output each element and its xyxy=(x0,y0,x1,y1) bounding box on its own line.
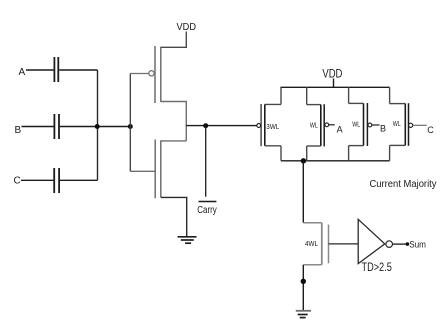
transistor T2 WL channel bar xyxy=(320,105,322,146)
transistor T3 WL drain connector xyxy=(348,146,350,161)
wire output bottom rail xyxy=(281,160,390,162)
transistor T2 WL drain arm xyxy=(307,145,321,147)
transistor T1 3WL gate bar xyxy=(260,104,262,146)
wire carry tap xyxy=(205,126,207,197)
svg-text:WL: WL xyxy=(393,119,401,128)
junction carry node xyxy=(203,123,208,128)
junction source/ground node xyxy=(301,279,306,284)
transistor T1 3WL drain connector xyxy=(280,146,282,161)
op-amp U1 inverter triangle xyxy=(358,219,385,263)
transistor T2 WL source arm xyxy=(307,104,321,106)
junction Sum node xyxy=(406,242,410,246)
wire C input to capacitor xyxy=(21,179,53,181)
wire to NMOS M2 gate xyxy=(130,170,155,172)
svg-text:WL: WL xyxy=(310,121,318,130)
svg-text:A: A xyxy=(19,67,26,78)
transistor T4 WL drain connector xyxy=(389,145,391,160)
net Carry overline xyxy=(199,201,217,203)
transistor T4 WL drain arm xyxy=(390,144,406,146)
transistor T2 WL source connector xyxy=(306,87,308,104)
op bubble inverter output xyxy=(386,241,393,248)
capacitor B (left plate) xyxy=(53,114,55,139)
ground (stage 1) bar2 xyxy=(181,239,194,241)
svg-text:Carry: Carry xyxy=(197,205,217,216)
wire T3 gate to B xyxy=(372,124,380,126)
ground (stage 2) bar2 xyxy=(298,314,308,316)
transistor M1 PMOS drain arm xyxy=(161,102,187,141)
capacitor A (right plate) xyxy=(57,57,59,82)
wire capacitor A to bus xyxy=(59,69,97,71)
wire B input to capacitor xyxy=(22,126,54,128)
ground (stage 2) bar3 xyxy=(300,317,306,319)
op bubble T2 gate xyxy=(325,123,329,127)
transistor T4 WL source arm xyxy=(390,103,406,105)
transistor T2 WL drain connector xyxy=(306,146,308,161)
transistor T4 WL gate bar xyxy=(408,103,410,146)
junction floating-gate node xyxy=(128,124,133,129)
wire T2 gate to A xyxy=(329,124,335,126)
transistor T3 WL channel bar xyxy=(363,103,365,145)
capacitor B (right plate) xyxy=(58,114,60,139)
ground (stage 1) bar3 xyxy=(185,242,191,244)
svg-text:3WL: 3WL xyxy=(266,122,279,131)
wire capacitor C to bus xyxy=(60,179,98,181)
wire capacitor B to inverter input node xyxy=(60,126,130,128)
junction bus/B-row xyxy=(95,124,100,129)
transistor T5 4WL drain arm xyxy=(303,222,322,224)
wire A input to capacitor xyxy=(26,69,54,71)
transistor T3 WL source arm xyxy=(349,102,364,104)
wire inverter output to majority T1 xyxy=(186,125,256,127)
wire T4 gate to C xyxy=(413,124,427,126)
svg-text:WL: WL xyxy=(352,120,360,129)
capacitor A (left plate) xyxy=(53,57,55,82)
transistor T3 WL source connector xyxy=(348,87,350,103)
wire T5 gate to inverter input xyxy=(329,243,359,245)
transistor T5 4WL source arm xyxy=(303,264,322,266)
transistor M1 PMOS channel bar xyxy=(160,47,162,102)
svg-text:TD>2.5: TD>2.5 xyxy=(362,262,392,274)
svg-text:VDD: VDD xyxy=(322,69,342,81)
svg-text:C: C xyxy=(427,125,434,135)
transistor T1 3WL source connector xyxy=(280,87,282,104)
transistor T5 4WL gate bar xyxy=(328,225,330,264)
op bubble T3 gate xyxy=(368,123,372,127)
svg-text:B: B xyxy=(380,124,386,134)
ground (stage 2) bar1 xyxy=(296,310,311,312)
transistor T2 WL gate bar xyxy=(323,104,325,146)
capacitor C (left plate) xyxy=(53,168,55,193)
transistor M1 PMOS gate bar xyxy=(154,46,156,103)
svg-text:Sum: Sum xyxy=(409,240,426,250)
transistor T4 WL source connector xyxy=(389,87,391,103)
wire T5 source to ground xyxy=(302,265,304,311)
transistor T1 3WL channel bar xyxy=(264,104,266,145)
svg-text:A: A xyxy=(337,124,343,134)
svg-text:4WL: 4WL xyxy=(305,239,318,248)
wire to PMOS M1 gate xyxy=(130,73,149,75)
junction majority output node xyxy=(301,158,306,163)
transistor T1 3WL drain arm xyxy=(265,145,281,147)
svg-text:Current Majority: Current Majority xyxy=(370,179,437,190)
transistor M2 NMOS channel bar xyxy=(160,140,162,197)
wire majority output to sense transistor xyxy=(302,161,304,223)
wire summing bus vertical xyxy=(97,70,99,180)
transistor M2 NMOS gate bar xyxy=(154,140,156,199)
wire VDD top rail xyxy=(280,86,389,88)
capacitor C (right plate) xyxy=(58,168,60,193)
transistor T1 3WL source arm xyxy=(265,103,281,105)
transistor T3 WL gate bar xyxy=(366,103,368,146)
transistor M2 NMOS source arm to ground xyxy=(161,197,187,236)
power VDD stem (stage 2) xyxy=(333,79,335,88)
transistor M2 NMOS drain arm xyxy=(161,140,187,142)
op bubble T1 gate xyxy=(257,124,261,128)
transistor M1 PMOS source arm to VDD xyxy=(161,32,187,48)
svg-text:B: B xyxy=(15,125,22,136)
transistor T3 WL drain arm xyxy=(349,145,364,147)
wire inverter output to Sum xyxy=(393,243,406,245)
transistor T5 4WL channel bar xyxy=(321,223,323,265)
op bubble PMOS M1 xyxy=(149,71,154,76)
transistor T4 WL channel bar xyxy=(404,104,406,146)
op bubble T4 gate xyxy=(409,123,413,127)
ground (stage 1) bar1 xyxy=(178,236,197,238)
svg-text:C: C xyxy=(14,176,21,187)
wire gate branch vertical xyxy=(129,74,131,172)
svg-text:VDD: VDD xyxy=(177,21,197,33)
